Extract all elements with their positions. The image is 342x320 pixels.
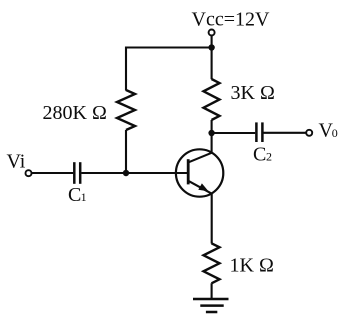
wire left branch upper (top rail to 280K top) xyxy=(125,47,127,91)
capacitor C1 right plate xyxy=(79,162,82,184)
capacitor C1 left plate xyxy=(73,162,76,184)
capacitor C2 right plate xyxy=(261,122,264,142)
ground bottom bar xyxy=(206,311,217,314)
ground top bar xyxy=(193,298,229,301)
svg-text:C: C xyxy=(68,184,81,206)
node collector junction dot xyxy=(208,130,214,136)
resistor R3 1K zigzag xyxy=(204,243,220,283)
transistor Q1 base bar xyxy=(187,159,190,184)
capacitor C2 left plate xyxy=(255,122,258,142)
svg-text:Vcc=12V: Vcc=12V xyxy=(192,8,270,30)
wire C2 to V0 terminal xyxy=(264,132,306,134)
svg-text:1K Ω: 1K Ω xyxy=(230,255,274,277)
svg-text:2: 2 xyxy=(266,150,272,164)
wire collector node to C2 left plate xyxy=(212,132,256,134)
resistor R1 280K zigzag xyxy=(117,90,135,130)
wire emitter down to 1K xyxy=(211,194,213,244)
wire Vcc terminal down to rail junction xyxy=(211,36,213,80)
wire left branch lower (280K bottom to base node) xyxy=(125,130,127,173)
resistor R2 3K zigzag xyxy=(204,79,220,120)
wire top horizontal Vcc rail xyxy=(125,46,212,48)
wire 1K bottom to ground xyxy=(211,283,213,299)
ground middle bar xyxy=(200,304,223,307)
transistor Q1 circle xyxy=(176,149,223,196)
node base junction dot xyxy=(123,170,129,176)
terminal V0 open circle xyxy=(306,130,312,136)
svg-text:3K Ω: 3K Ω xyxy=(231,82,275,104)
svg-text:1: 1 xyxy=(81,190,87,204)
wire 3K bottom to collector xyxy=(211,120,213,153)
svg-text:0: 0 xyxy=(332,126,338,140)
wire C1 to base (through base node) xyxy=(81,172,188,174)
svg-text:C: C xyxy=(253,144,266,166)
wire Vi to C1 left plate xyxy=(32,172,73,174)
terminal Vcc open circle xyxy=(209,30,215,36)
wire collector diagonal inside transistor xyxy=(189,153,212,163)
svg-text:280K Ω: 280K Ω xyxy=(43,102,107,124)
terminal Vi open circle xyxy=(26,170,32,176)
wire emitter diagonal xyxy=(189,181,213,194)
svg-text:Vi: Vi xyxy=(7,151,26,173)
transistor Q1 emitter arrowhead xyxy=(198,183,208,191)
node junction dot at Vcc rail xyxy=(208,44,214,50)
